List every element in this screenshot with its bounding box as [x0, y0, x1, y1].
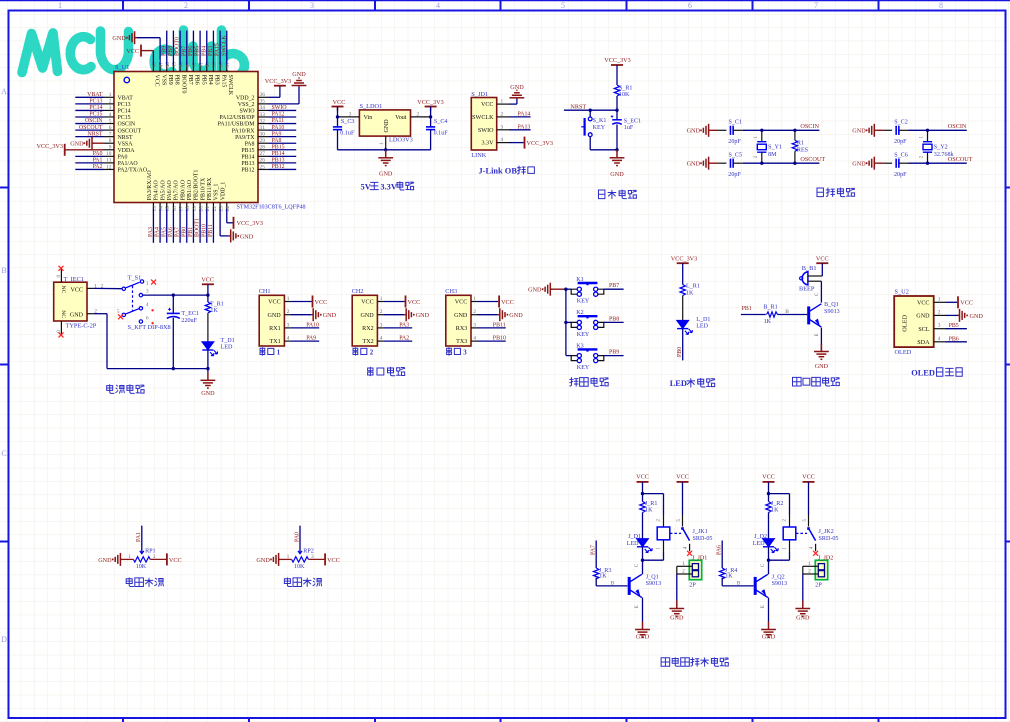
- svg-text:T_S1: T_S1: [128, 274, 142, 281]
- wire NRST net: [564, 103, 617, 110]
- svg-text:3: 3: [349, 112, 352, 118]
- svg-text:S_EC1: S_EC1: [624, 118, 641, 124]
- svg-text:1uF: 1uF: [624, 125, 634, 131]
- svg-text:2: 2: [370, 350, 374, 357]
- svg-text:4: 4: [501, 137, 504, 143]
- svg-text:PB6: PB6: [194, 75, 200, 85]
- svg-text:GND: GND: [528, 287, 542, 294]
- svg-text:PB1/AO: PB1/AO: [187, 179, 193, 200]
- svg-text:3: 3: [938, 323, 941, 329]
- svg-text:VCC_3V3: VCC_3V3: [671, 256, 697, 263]
- svg-text:44: 44: [178, 62, 184, 68]
- resistor L_R1 1K: [680, 284, 700, 321]
- svg-text:J_JD2: J_JD2: [818, 555, 833, 561]
- svg-text:OSCOUT: OSCOUT: [800, 156, 825, 163]
- svg-text:PA3: PA3: [148, 227, 154, 237]
- wire J-Link pin2 net PA14: [509, 111, 531, 117]
- LED J_D2: [753, 534, 778, 560]
- wire MCU pin36 VDD_2 to VCC_3V3: [269, 86, 280, 98]
- pushbutton K2 KEY: [571, 310, 604, 338]
- TYPE-C pin1 VCC wire to switch: [87, 283, 122, 289]
- svg-text:PA0: PA0: [118, 155, 128, 161]
- power VCC buzzer: [816, 255, 829, 276]
- wire J-Link pin3 net PA13: [509, 124, 531, 130]
- svg-text:PB10: PB10: [493, 336, 506, 342]
- MCU left pin 12 PA2/TX/AO: [75, 164, 148, 174]
- svg-text:46: 46: [165, 62, 171, 68]
- svg-text:OSCOUT: OSCOUT: [118, 128, 142, 134]
- svg-text:2: 2: [184, 1, 188, 10]
- svg-text:CH2: CH2: [352, 288, 364, 295]
- connector J_JD1 2P: [689, 555, 707, 588]
- switch T_S1 S_KFT DIP-8X8: [101, 274, 171, 331]
- MCU left pin 1 VBAT: [75, 92, 133, 102]
- label serial2: [353, 348, 374, 357]
- wires J_JD1 pins to GND: [677, 561, 693, 601]
- svg-text:PA1: PA1: [93, 158, 103, 164]
- svg-text:GND: GND: [256, 557, 270, 564]
- svg-text:20pF: 20pF: [894, 172, 907, 178]
- svg-text:SRD-05: SRD-05: [693, 536, 713, 542]
- svg-text:J_D2: J_D2: [754, 534, 767, 540]
- svg-text:SWIO: SWIO: [239, 109, 255, 115]
- svg-text:PA11/USB/DM: PA11/USB/DM: [218, 122, 256, 128]
- svg-text:OSCIN: OSCIN: [800, 123, 819, 130]
- svg-text:NRST: NRST: [87, 131, 102, 137]
- power VCC at CH2 pin1: [383, 296, 420, 308]
- junction driver top: [767, 492, 770, 495]
- svg-text:J_R1: J_R1: [645, 501, 658, 507]
- connector CH1 body: [259, 295, 284, 346]
- connector T_IEC1 TYPE-C body: [54, 282, 87, 321]
- wire OSCOUT rail: [743, 162, 820, 164]
- power VCC_3V3 at MCU bottom: [234, 217, 263, 229]
- svg-text:L_R1: L_R1: [686, 284, 700, 290]
- svg-text:PA7/AO: PA7/AO: [174, 179, 180, 200]
- svg-text:VSS: VSS: [160, 75, 166, 86]
- J-Link pin 1 VCC: [481, 99, 509, 109]
- svg-text:1: 1: [58, 1, 62, 10]
- MCU right pin 30 PA9/TX: [235, 131, 296, 141]
- relay J_JK1 switch side: [670, 474, 713, 552]
- svg-text:PA8: PA8: [272, 138, 282, 144]
- svg-text:8M: 8M: [768, 152, 777, 158]
- svg-text:1K: 1K: [686, 290, 694, 296]
- capacitor T_EC1 220uF: [167, 295, 199, 369]
- svg-text:J-Link OB: J-Link OB: [479, 167, 518, 176]
- MCU bottom pin 22 PB11/RX: [207, 177, 218, 243]
- ground GND at MCU top-left: [112, 31, 136, 44]
- svg-text:GND: GND: [292, 71, 306, 78]
- svg-text:GND: GND: [379, 171, 393, 178]
- svg-text:RX3: RX3: [456, 326, 468, 332]
- wire coil bottom to junction: [769, 540, 790, 560]
- label serial3: [447, 348, 468, 357]
- svg-text:PB13: PB13: [241, 161, 254, 167]
- transistor J_Q1 S9013: [628, 574, 661, 597]
- svg-text:GND: GND: [687, 161, 701, 168]
- svg-text:31: 31: [260, 125, 266, 131]
- svg-text:PB0: PB0: [181, 227, 187, 237]
- svg-text:VCC: VCC: [268, 300, 281, 306]
- svg-text:13: 13: [152, 206, 158, 212]
- MCU right pin 27 PB14: [241, 151, 296, 161]
- svg-text:PA12: PA12: [272, 112, 285, 118]
- svg-text:PA5/AO: PA5/AO: [160, 179, 166, 200]
- svg-text:3: 3: [311, 554, 314, 560]
- svg-text:3: 3: [380, 322, 383, 328]
- svg-text:S_C5: S_C5: [729, 152, 743, 158]
- RP2 wiper arrow and net PA0: [294, 526, 314, 571]
- capacitor S_C1 20pF: [728, 119, 743, 145]
- svg-text:34: 34: [260, 105, 266, 111]
- svg-text:GND: GND: [323, 312, 337, 319]
- svg-text:PB5: PB5: [949, 323, 959, 329]
- svg-text:1K: 1K: [764, 319, 772, 325]
- svg-text:VCC: VCC: [201, 276, 214, 283]
- svg-text:GND: GND: [360, 313, 374, 319]
- MCUclub logo: [22, 30, 244, 79]
- svg-text:K1: K1: [576, 277, 583, 283]
- svg-text:GND: GND: [852, 161, 866, 168]
- svg-text:VCC_3V3: VCC_3V3: [37, 143, 63, 150]
- svg-text:J_R2: J_R2: [771, 501, 784, 507]
- svg-text:4: 4: [287, 336, 290, 342]
- ground GND at RP1 pin1: [98, 553, 133, 566]
- svg-text:3: 3: [310, 1, 314, 10]
- svg-text:PA5: PA5: [161, 227, 167, 237]
- wire CH2 pin4 net PA2: [383, 336, 412, 342]
- ground GND at MCU right: [292, 71, 307, 86]
- wire key to ground rail: [590, 137, 617, 150]
- wire trunk to K1: [566, 288, 571, 290]
- svg-text:3: 3: [501, 124, 504, 130]
- svg-text:SWCLK: SWCLK: [221, 35, 227, 56]
- svg-text:PB11: PB11: [493, 322, 506, 328]
- svg-text:KEY: KEY: [577, 332, 590, 338]
- svg-text:GND: GND: [454, 313, 468, 319]
- svg-text:45: 45: [172, 62, 178, 68]
- svg-text:KEY: KEY: [577, 365, 590, 371]
- MCU top pin 41 PB5: [195, 31, 207, 85]
- svg-text:19: 19: [192, 206, 198, 212]
- MCU right pin 34 SWIO: [239, 105, 296, 115]
- wire MCU top VSS pin to GND: [137, 38, 161, 65]
- wire coil bottom to junction: [643, 540, 664, 560]
- svg-text:1: 1: [473, 296, 476, 302]
- MCU U1 STM32F103C8T6 body: [114, 72, 258, 203]
- wire OSCIN rail: [909, 129, 967, 131]
- RP1 wiper arrow and net PA1: [136, 526, 156, 571]
- MCU bottom pin 13 PA3/RX/AO: [147, 170, 158, 243]
- MCU top pin 46 PB9: [161, 31, 173, 85]
- svg-text:E: E: [634, 605, 640, 608]
- svg-text:2: 2: [109, 99, 112, 105]
- svg-text:B: B: [611, 580, 615, 586]
- ground GND above J-Link: [510, 84, 525, 98]
- svg-text:GND: GND: [970, 313, 984, 320]
- junction reset ground: [615, 148, 618, 151]
- power VCC at RP2 pin3: [308, 553, 339, 565]
- svg-text:47: 47: [158, 62, 164, 68]
- svg-text:VCC: VCC: [154, 75, 160, 87]
- svg-text:B: B: [785, 309, 789, 315]
- resistor J_R2 1K: [766, 494, 784, 539]
- OLED pin 2 GND: [916, 309, 945, 319]
- J-Link pin 3 SWIO: [478, 124, 509, 134]
- resistor B_R1 1K on base: [741, 304, 807, 325]
- svg-text:1K: 1K: [771, 507, 779, 513]
- junction key trunk mid: [564, 321, 567, 324]
- wire OLED pin4 net PB6: [946, 336, 967, 342]
- svg-text:VCC: VCC: [315, 299, 328, 306]
- svg-text:S9013: S9013: [646, 581, 662, 587]
- svg-text:VCC: VCC: [917, 301, 930, 307]
- MCU symbol marker circle: [124, 77, 129, 82]
- svg-text:3.3V: 3.3V: [481, 141, 494, 147]
- svg-text:VCC_3V3: VCC_3V3: [417, 99, 443, 106]
- power VCC_3V3 at MCU right: [265, 78, 291, 86]
- svg-text:VCC: VCC: [455, 300, 468, 306]
- svg-text:11: 11: [106, 158, 111, 164]
- LDO pin 2 wire: [411, 112, 431, 118]
- svg-text:32: 32: [260, 118, 266, 124]
- svg-text:E: E: [760, 605, 766, 608]
- ground GND S_C6 bottom: [852, 157, 892, 170]
- OLED pin 4 SDA: [917, 336, 945, 346]
- svg-text:VCC: VCC: [816, 255, 829, 262]
- svg-text:PA7: PA7: [590, 545, 596, 555]
- svg-text:GND: GND: [112, 35, 126, 42]
- svg-text:PB11/RX: PB11/RX: [207, 177, 213, 200]
- power VCC at CH1 pin1: [290, 296, 327, 308]
- svg-text:0.1uF: 0.1uF: [340, 131, 355, 137]
- MCU left pin 5 OSCIN: [75, 118, 136, 128]
- svg-text:PB8: PB8: [174, 75, 180, 85]
- svg-text:GND: GND: [70, 141, 84, 148]
- svg-text:Vin: Vin: [364, 115, 373, 121]
- svg-text:0: 0: [56, 330, 62, 333]
- svg-text:PA4/AO: PA4/AO: [154, 179, 160, 200]
- svg-text:C: C: [634, 563, 640, 567]
- svg-text:PA11: PA11: [272, 118, 285, 124]
- svg-text:1: 1: [682, 561, 685, 567]
- MCU top pin 40 PB4: [201, 31, 213, 85]
- svg-text:GND: GND: [852, 128, 866, 135]
- svg-text:PB1: PB1: [188, 227, 194, 237]
- wire trunk to K3: [566, 355, 571, 357]
- wire to relay coil top: [643, 494, 664, 527]
- capacitor S_C6 20pF: [894, 152, 909, 178]
- svg-text:SCL: SCL: [918, 327, 929, 333]
- label OLED display: [911, 368, 962, 378]
- CH2 pin 2 GND: [360, 309, 383, 319]
- svg-text:PA10/RX: PA10/RX: [232, 128, 255, 134]
- svg-text:1: 1: [277, 350, 281, 357]
- svg-text:SDA: SDA: [917, 340, 930, 346]
- capacitor S_C2 20pF: [894, 119, 909, 145]
- svg-text:PA1: PA1: [136, 532, 142, 542]
- label buzzer circuit: [793, 377, 840, 386]
- svg-text:J_Q1: J_Q1: [646, 574, 659, 580]
- svg-text:B: B: [1, 266, 6, 275]
- svg-text:B: B: [737, 580, 741, 586]
- svg-text:NC: NC: [60, 286, 66, 294]
- svg-text:8: 8: [109, 138, 112, 144]
- svg-text:GND: GND: [916, 314, 930, 320]
- svg-text:VCC: VCC: [481, 102, 494, 108]
- svg-text:GND: GND: [416, 312, 430, 319]
- svg-text:S_Y2: S_Y2: [934, 144, 948, 150]
- svg-text:L_D1: L_D1: [696, 317, 710, 323]
- svg-text:TX3: TX3: [456, 339, 467, 345]
- svg-text:SWCLK: SWCLK: [472, 115, 494, 121]
- svg-text:PA0: PA0: [93, 151, 103, 157]
- LED L_D1: [677, 317, 710, 335]
- svg-text:48: 48: [152, 62, 158, 68]
- crystal S_Y1 8M: [754, 130, 782, 163]
- svg-text:VSS_1: VSS_1: [214, 184, 220, 201]
- svg-text:RX1: RX1: [269, 326, 281, 332]
- svg-text:PB3: PB3: [208, 46, 214, 56]
- svg-text:1: 1: [287, 554, 290, 560]
- svg-text:VCC_3V3: VCC_3V3: [604, 57, 630, 64]
- svg-text:4: 4: [380, 336, 383, 342]
- svg-text:0.1uF: 0.1uF: [434, 131, 449, 137]
- svg-text:PB7: PB7: [181, 46, 187, 56]
- OLED pin 3 SCL: [918, 323, 945, 333]
- svg-text:LED: LED: [627, 541, 639, 547]
- svg-text:10K: 10K: [619, 92, 630, 98]
- svg-text:OLED: OLED: [902, 315, 909, 332]
- label reset circuit: [598, 190, 636, 199]
- svg-text:PC15: PC15: [118, 115, 131, 121]
- svg-text:PB10/TX: PB10/TX: [200, 177, 206, 200]
- svg-text:K3: K3: [576, 343, 583, 349]
- svg-text:KEY: KEY: [577, 299, 590, 305]
- CH3 pin 3 RX3: [456, 322, 477, 332]
- svg-text:VCC: VCC: [636, 474, 649, 481]
- wire CH3 pin4 net PB10: [477, 336, 506, 342]
- svg-text:PB8: PB8: [168, 46, 174, 56]
- potentiometer RP1 10K: [133, 557, 150, 562]
- svg-text:PB12: PB12: [241, 168, 254, 174]
- svg-text:PA6: PA6: [716, 545, 722, 555]
- svg-text:1: 1: [379, 142, 385, 145]
- junction VCC rail: [206, 293, 209, 296]
- svg-text:6: 6: [109, 125, 112, 131]
- svg-text:VCC_3V3: VCC_3V3: [527, 140, 553, 147]
- CH2 pin 1 VCC: [361, 296, 383, 306]
- svg-text:VDD_1: VDD_1: [220, 182, 226, 201]
- resistor T_R1 1K: [205, 295, 224, 342]
- ground GND transistor emitter: [635, 622, 650, 641]
- junction crystal bottom: [760, 162, 763, 165]
- svg-text:35: 35: [260, 99, 266, 105]
- svg-text:43: 43: [185, 62, 191, 68]
- svg-text:PA14: PA14: [518, 111, 531, 117]
- MCU top pin 48 VCC: [152, 62, 160, 87]
- svg-text:PC15: PC15: [89, 112, 102, 118]
- svg-text:LDO3V3: LDO3V3: [389, 137, 413, 144]
- wire J-Link pin1 to GND: [509, 98, 517, 104]
- svg-text:PB4: PB4: [201, 46, 207, 56]
- junction ground rail: [172, 367, 175, 370]
- svg-text:4: 4: [473, 336, 476, 342]
- svg-text:37: 37: [225, 62, 231, 68]
- svg-text:SWIO: SWIO: [272, 105, 288, 111]
- svg-text:NRST: NRST: [570, 103, 586, 110]
- svg-text:S_JD1: S_JD1: [471, 91, 488, 98]
- LDO pin 1 GND stub: [379, 136, 386, 150]
- svg-text:3: 3: [109, 105, 112, 111]
- label serial1: [260, 348, 281, 357]
- svg-text:RES: RES: [797, 148, 809, 154]
- svg-text:GND: GND: [610, 171, 624, 178]
- svg-text:1: 1: [109, 92, 112, 98]
- LED T_D1: [202, 338, 234, 369]
- svg-text:PB5: PB5: [200, 75, 206, 85]
- wire trunk to K2: [566, 321, 571, 323]
- junction R1 top: [793, 129, 796, 132]
- svg-text:J_D1: J_D1: [628, 534, 641, 540]
- J-Link pin 2 SWCLK: [472, 111, 509, 121]
- buzzer B_B1 BEEP: [799, 265, 822, 293]
- CH1 pin 2 GND: [267, 309, 290, 319]
- no-connect X at relay contact: [813, 551, 818, 556]
- svg-text:2: 2: [473, 309, 476, 315]
- svg-text:28: 28: [260, 145, 266, 151]
- svg-text:PB13: PB13: [272, 158, 285, 164]
- svg-text:S_Y1: S_Y1: [768, 144, 782, 150]
- ground GND power circuit: [201, 369, 216, 397]
- svg-text:2: 2: [682, 569, 685, 575]
- connector J_JD2 2P: [815, 555, 833, 588]
- label key circuit: [570, 378, 608, 387]
- ground GND below LDO: [378, 150, 393, 178]
- svg-text:SWIO: SWIO: [478, 128, 494, 134]
- svg-text:LINK: LINK: [471, 152, 486, 159]
- svg-text:PA7: PA7: [175, 227, 181, 237]
- svg-text:PC14: PC14: [118, 109, 131, 115]
- svg-text:6: 6: [688, 1, 692, 10]
- svg-text:3: 3: [287, 322, 290, 328]
- svg-text:PA2/TX/AO: PA2/TX/AO: [118, 168, 148, 174]
- svg-text:PA3: PA3: [399, 322, 409, 328]
- svg-text:PA2: PA2: [93, 164, 103, 170]
- svg-text:CH1: CH1: [259, 288, 271, 295]
- ground GND relay output: [669, 601, 684, 622]
- svg-text:VBAT: VBAT: [87, 92, 103, 98]
- svg-text:2: 2: [938, 309, 941, 315]
- svg-text:VCC_3V3: VCC_3V3: [237, 220, 263, 227]
- svg-text:PB15: PB15: [272, 144, 285, 150]
- svg-text:PC14: PC14: [89, 105, 102, 111]
- svg-text:S_C4: S_C4: [434, 119, 448, 125]
- svg-text:PA0: PA0: [294, 532, 300, 542]
- svg-text:PB1: PB1: [742, 306, 752, 312]
- svg-text:GND: GND: [240, 233, 254, 240]
- MCU top pin 43 PB7: [181, 31, 193, 85]
- svg-text:S_C6: S_C6: [894, 152, 908, 158]
- MCU left pin 7 NRST: [75, 131, 133, 141]
- svg-text:10K: 10K: [294, 564, 305, 570]
- MCU right pin 31 PA10/RX: [232, 125, 296, 135]
- wire LDO ground rail: [338, 149, 431, 151]
- MCU left pin 11 PA1/AO: [75, 158, 138, 168]
- svg-text:J_JK1: J_JK1: [693, 529, 708, 535]
- MCU left pin 6 OSCOUT: [75, 125, 141, 135]
